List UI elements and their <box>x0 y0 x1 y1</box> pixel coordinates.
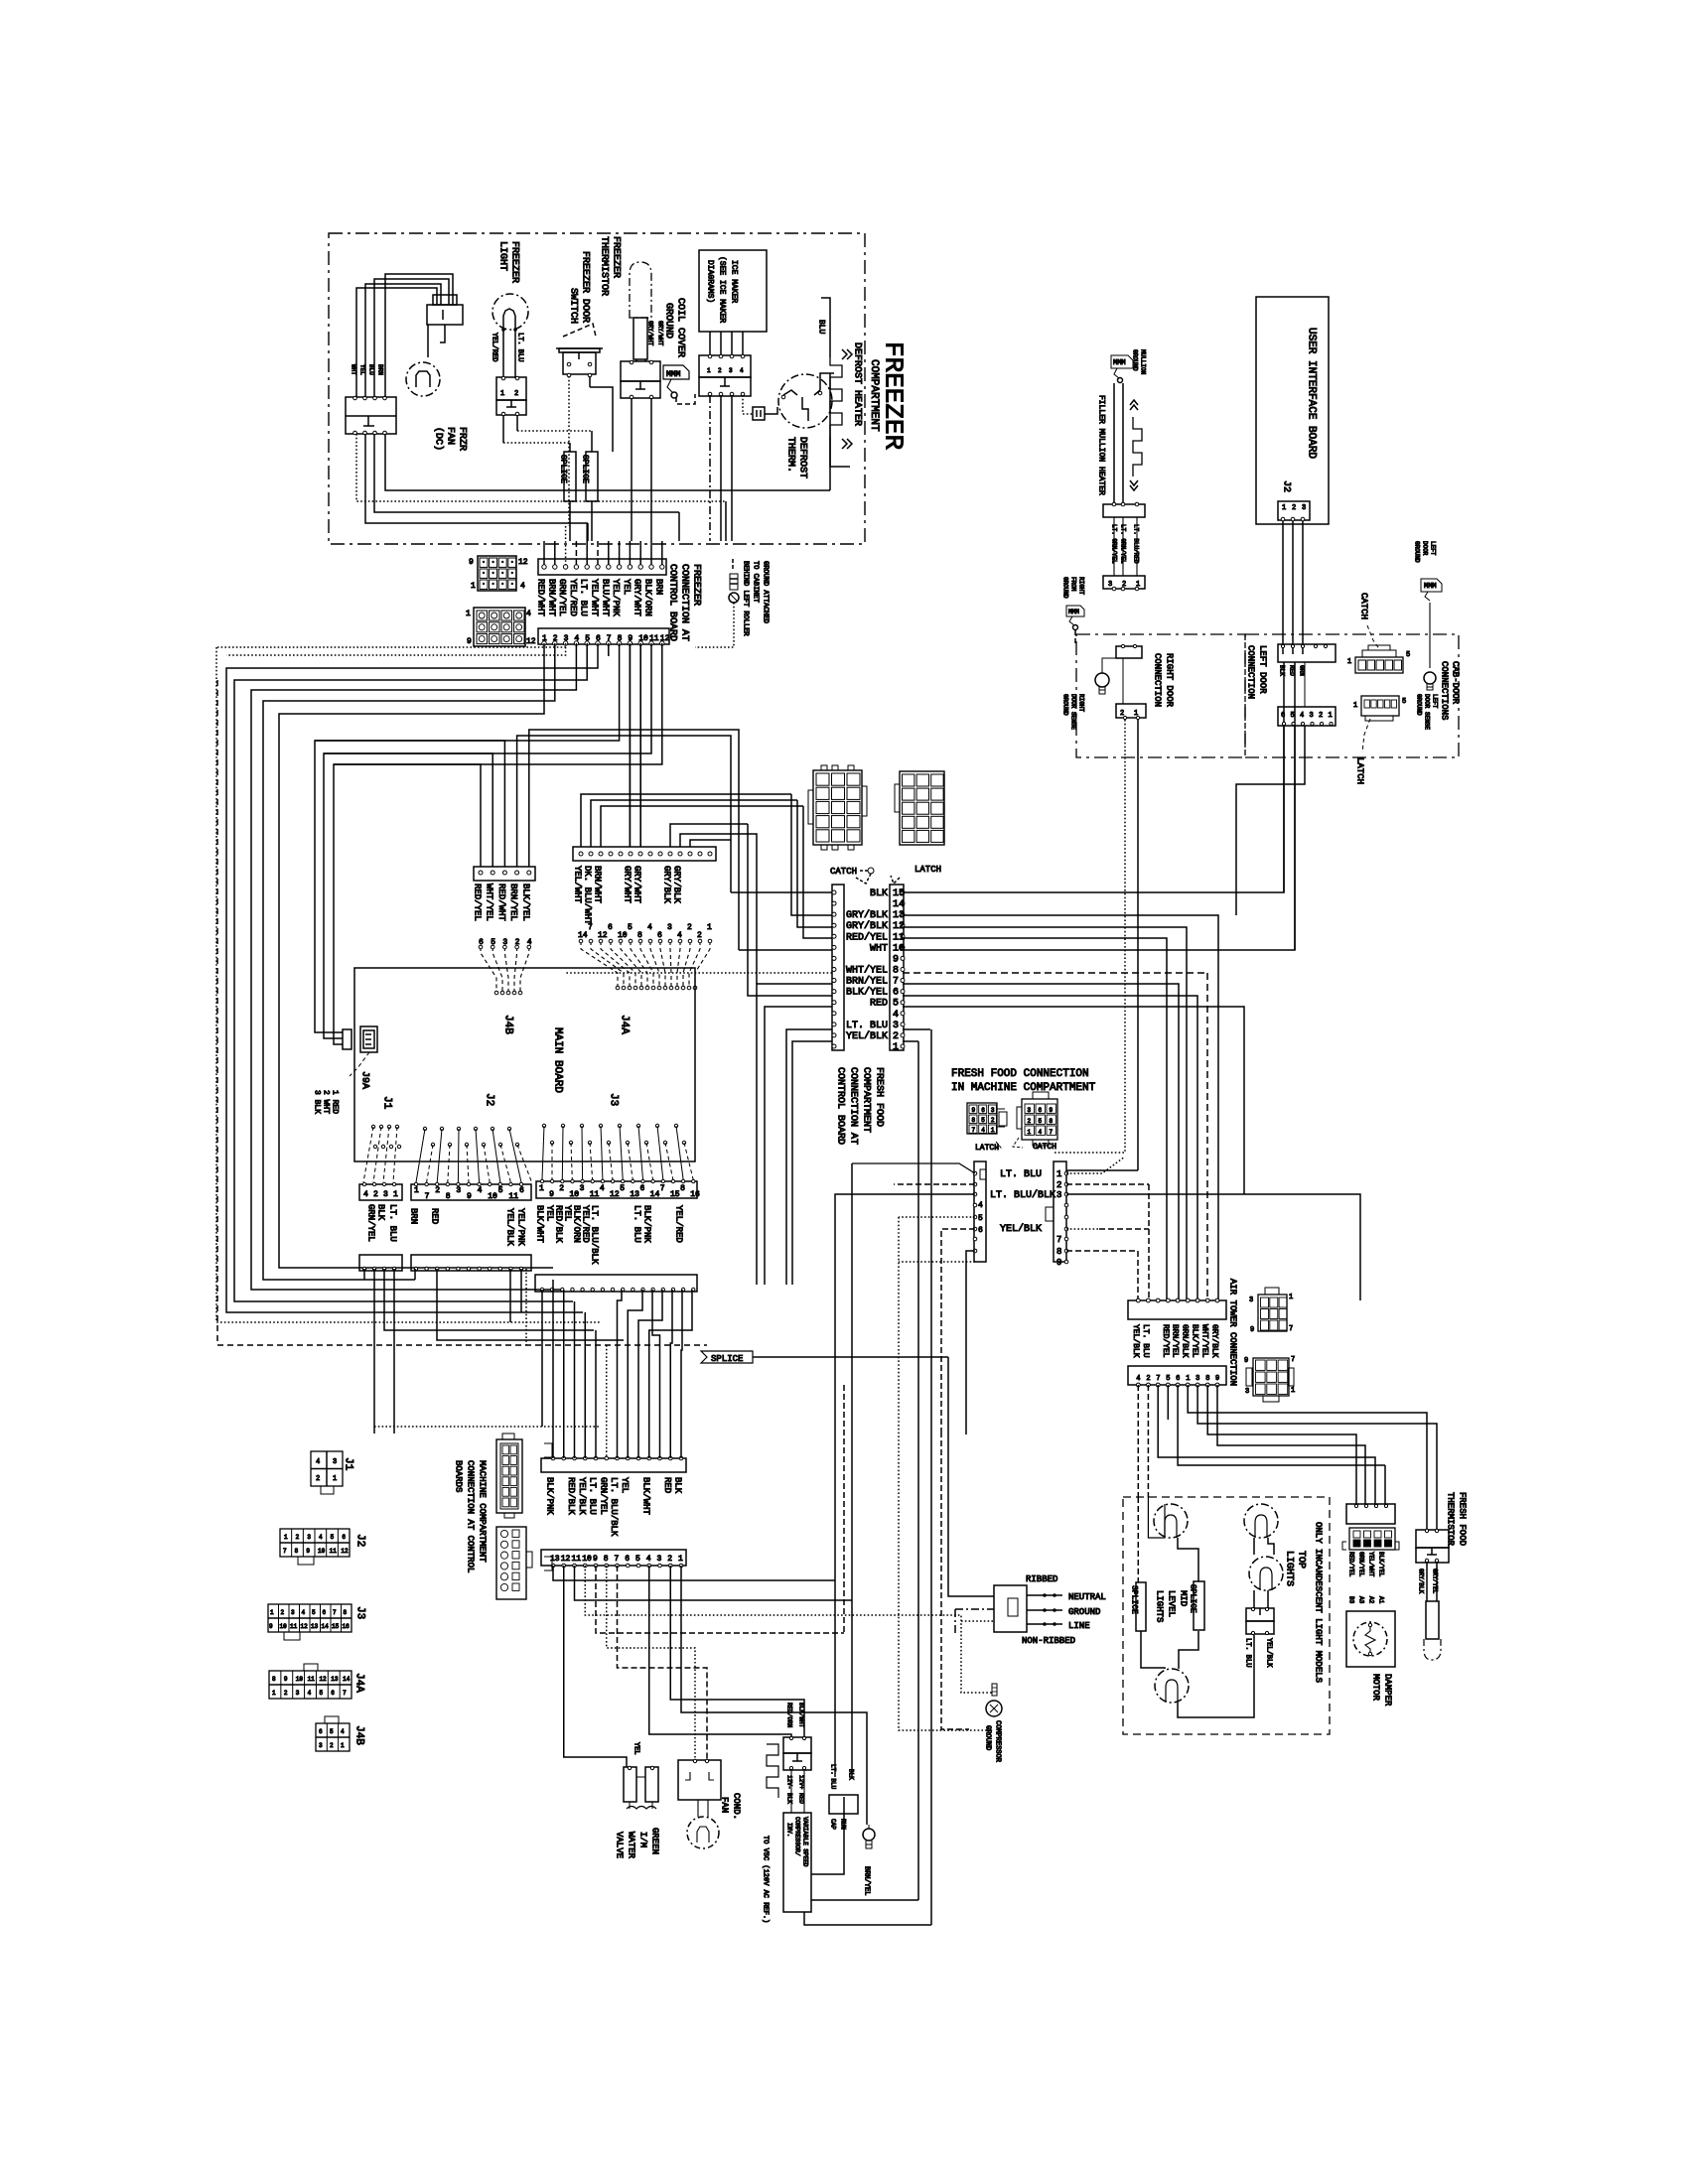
svg-text:TO CABINET: TO CABINET <box>752 561 760 603</box>
svg-text:1 RED: 1 RED <box>331 1090 340 1114</box>
outer dotted wire loop <box>216 646 566 648</box>
svg-text:15: 15 <box>893 888 905 899</box>
svg-text:BRN/WHT: BRN/WHT <box>546 579 556 616</box>
ff right strip outgoing wires <box>903 662 1284 892</box>
svg-text:9: 9 <box>469 558 474 567</box>
svg-text:RED/YEL: RED/YEL <box>1161 1324 1170 1358</box>
svg-text:3: 3 <box>319 1742 323 1749</box>
defrost heater element <box>821 298 830 320</box>
coil cover ground lug <box>663 365 689 379</box>
svg-text:4: 4 <box>1136 1375 1140 1383</box>
top light lamp 2 <box>1249 1557 1283 1590</box>
svg-text:3: 3 <box>1310 712 1314 720</box>
damper motor box <box>1346 1611 1395 1667</box>
svg-text:MOTOR: MOTOR <box>1371 1674 1381 1702</box>
J9A connector <box>360 1026 377 1052</box>
bundle wire 7 dotted <box>608 643 610 656</box>
svg-text:USER INTERFACE BOARD: USER INTERFACE BOARD <box>1306 328 1318 459</box>
svg-text:10: 10 <box>318 1548 326 1555</box>
svg-text:DEFROST HEATER: DEFROST HEATER <box>852 342 863 426</box>
svg-text:1: 1 <box>500 390 504 398</box>
fresh food left strip <box>832 885 844 1050</box>
svg-text:2: 2 <box>1319 712 1323 720</box>
svg-text:VARIABLE SPEED: VARIABLE SPEED <box>802 1817 809 1867</box>
svg-text:DAMPER: DAMPER <box>1383 1674 1393 1706</box>
svg-text:RED/YEL: RED/YEL <box>473 884 483 921</box>
svg-text:1: 1 <box>991 1127 995 1134</box>
svg-text:GRY/BLK: GRY/BLK <box>662 866 672 903</box>
svg-text:LIGHTS: LIGHTS <box>1155 1590 1165 1622</box>
svg-text:YEL/RED: YEL/RED <box>568 579 578 616</box>
svg-text:J4A: J4A <box>619 1015 631 1034</box>
svg-text:RED/YEL: RED/YEL <box>846 931 888 943</box>
svg-text:BRN: BRN <box>653 579 663 595</box>
svg-text:1: 1 <box>414 1186 419 1195</box>
svg-text:RED: RED <box>662 1477 672 1493</box>
svg-text:GRN/BLK: GRN/BLK <box>1181 1324 1190 1358</box>
svg-text:3: 3 <box>1302 504 1306 512</box>
svg-text:AIR TOWER CONNECTION: AIR TOWER CONNECTION <box>1228 1279 1238 1386</box>
cond fan box <box>678 1760 721 1800</box>
freezer compartment dash-dot enclosure <box>329 233 865 544</box>
right door plug <box>1103 576 1145 589</box>
J3 lower header <box>535 1275 697 1292</box>
svg-text:GROUND: GROUND <box>663 303 674 339</box>
svg-text:5: 5 <box>981 1117 985 1124</box>
filler mullion ground lug <box>1111 355 1133 368</box>
long mid verticals <box>917 1041 919 1900</box>
dashed wire loop <box>217 680 707 1345</box>
svg-text:LEFT DOOR: LEFT DOOR <box>1258 645 1268 694</box>
svg-text:5: 5 <box>1039 1118 1043 1125</box>
svg-text:1: 1 <box>1186 1375 1190 1383</box>
svg-text:RED/BLK: RED/BLK <box>554 1205 564 1243</box>
svg-text:1: 1 <box>707 367 711 374</box>
svg-text:LIGHTS: LIGHTS <box>1284 1551 1295 1586</box>
svg-text:YEL: YEL <box>563 1205 573 1221</box>
svg-text:CONNECTIONS: CONNECTIONS <box>1440 661 1450 720</box>
svg-text:CONNECTION: CONNECTION <box>1246 645 1256 699</box>
svg-text:WHT: WHT <box>870 943 888 954</box>
top light lamp 1 <box>1244 1504 1278 1538</box>
compressor heater meander <box>767 1744 778 1798</box>
svg-text:9: 9 <box>1050 1107 1054 1114</box>
svg-text:BLK/WHT: BLK/WHT <box>535 1205 545 1243</box>
vsc outgoing <box>811 1797 844 1874</box>
svg-text:SPLICE: SPLICE <box>1189 1584 1197 1613</box>
svg-text:BLU/WHT: BLU/WHT <box>600 579 610 616</box>
left door ground wire <box>1429 603 1431 668</box>
svg-text:2 WHT: 2 WHT <box>322 1090 331 1114</box>
J4B fanout <box>481 947 496 993</box>
svg-text:8: 8 <box>272 1676 276 1683</box>
svg-text:DOOR SENSE: DOOR SENSE <box>1070 694 1077 730</box>
svg-text:LT. BLU: LT. BLU <box>579 579 589 616</box>
svg-text:LEFT: LEFT <box>1432 694 1439 709</box>
svg-text:J1: J1 <box>343 1457 354 1471</box>
freezer connection upper strip <box>538 559 666 575</box>
svg-text:J4B: J4B <box>502 1015 514 1034</box>
dashed mid vertical <box>843 1385 845 1633</box>
fresh food right strip <box>890 885 904 1050</box>
svg-text:RED: RED <box>870 999 888 1010</box>
svg-text:1: 1 <box>893 1042 899 1053</box>
svg-text:7: 7 <box>1056 1235 1061 1245</box>
J4A fanout <box>581 941 618 988</box>
svg-text:2: 2 <box>514 390 518 398</box>
J2 lower header <box>411 1255 531 1271</box>
svg-text:BRN/WHT: BRN/WHT <box>593 866 603 903</box>
J1 upper header <box>359 1184 402 1200</box>
svg-text:DEFROST: DEFROST <box>797 437 808 478</box>
svg-text:CONTROL BOARD: CONTROL BOARD <box>835 1067 846 1145</box>
svg-text:9: 9 <box>467 637 472 646</box>
svg-text:RED/YEL: RED/YEL <box>1348 1552 1355 1577</box>
svg-text:9: 9 <box>972 1107 976 1114</box>
svg-text:10: 10 <box>280 1623 288 1630</box>
J2 lower wires <box>414 1269 416 1280</box>
svg-text:GRN/YEL: GRN/YEL <box>557 579 567 616</box>
svg-text:4: 4 <box>478 1186 483 1195</box>
svg-text:MMM: MMM <box>1424 583 1437 591</box>
svg-text:BOARDS: BOARDS <box>454 1460 464 1492</box>
svg-text:BLK: BLK <box>376 1204 386 1221</box>
svg-text:1: 1 <box>272 1690 276 1697</box>
svg-text:GROUND ATTACHED: GROUND ATTACHED <box>762 561 770 623</box>
freezer fan connector <box>346 397 396 434</box>
svg-text:8: 8 <box>893 965 899 976</box>
svg-text:LT. BLU: LT. BLU <box>830 1764 837 1790</box>
svg-text:6: 6 <box>323 1609 327 1616</box>
svg-text:2: 2 <box>281 1609 285 1616</box>
svg-text:15: 15 <box>670 1190 680 1199</box>
svg-text:3: 3 <box>580 1184 585 1193</box>
freezer light leads <box>502 328 504 378</box>
svg-text:GRN/YEL: GRN/YEL <box>598 1477 608 1515</box>
svg-text:J4A: J4A <box>353 1673 365 1693</box>
svg-text:J3: J3 <box>354 1606 366 1619</box>
svg-text:COMPRESSOR: COMPRESSOR <box>994 1720 1002 1763</box>
svg-text:MULLION: MULLION <box>1140 349 1147 375</box>
svg-text:4: 4 <box>363 1190 368 1199</box>
filler mullion heater wires <box>1113 383 1115 504</box>
svg-text:MAIN BOARD: MAIN BOARD <box>552 1027 564 1093</box>
svg-text:RED: RED <box>1289 665 1296 676</box>
svg-text:12: 12 <box>301 1623 309 1630</box>
svg-text:COIL COVER: COIL COVER <box>675 298 686 357</box>
bundle wire 3 <box>226 643 566 655</box>
right door ground lug <box>1066 606 1084 616</box>
svg-text:5: 5 <box>1166 1375 1170 1383</box>
power dash-dot feed <box>955 1608 994 1610</box>
12-pin connector face A <box>478 556 516 591</box>
ground wire <box>695 603 734 647</box>
svg-text:GRY/WHT: GRY/WHT <box>657 321 664 346</box>
mid light lamp 2 <box>1155 1669 1189 1703</box>
J1 lower wires <box>363 1269 365 1280</box>
J1 board pins <box>371 1125 374 1128</box>
svg-text:11: 11 <box>572 1555 582 1564</box>
right door wires down <box>1054 720 1125 1153</box>
svg-text:8: 8 <box>1205 1375 1209 1383</box>
svg-text:LT. BLU/BLK: LT. BLU/BLK <box>990 1189 1055 1201</box>
svg-text:SPLICE: SPLICE <box>559 455 568 483</box>
svg-text:LT. BLU: LT. BLU <box>1000 1169 1042 1180</box>
right door inner connector 2 <box>1116 704 1146 718</box>
svg-text:8: 8 <box>972 1117 976 1124</box>
freezer door switch symbol <box>556 347 603 349</box>
svg-text:YEL/WHT: YEL/WHT <box>590 579 600 616</box>
svg-text:8: 8 <box>344 1609 348 1616</box>
dotted compressor ground run <box>899 1217 993 1730</box>
svg-text:7: 7 <box>972 1127 976 1134</box>
svg-text:WHT/YEL: WHT/YEL <box>485 884 494 921</box>
svg-text:4: 4 <box>647 923 652 932</box>
svg-text:3: 3 <box>657 1555 662 1564</box>
svg-text:LT. BLU/RED: LT. BLU/RED <box>1133 524 1140 564</box>
J4A face <box>269 1671 352 1699</box>
svg-text:8: 8 <box>1050 1118 1054 1125</box>
svg-text:BRN/YEL: BRN/YEL <box>1171 1324 1180 1358</box>
right door inner connector 1 <box>1116 646 1142 658</box>
svg-text:8: 8 <box>637 931 642 940</box>
svg-text:GRY/BLK: GRY/BLK <box>1418 1569 1425 1594</box>
J3 face <box>268 1604 352 1632</box>
svg-text:3: 3 <box>991 1107 995 1114</box>
svg-text:YEL: YEL <box>545 1205 555 1221</box>
svg-text:4: 4 <box>319 1534 323 1541</box>
svg-text:2: 2 <box>991 1117 995 1124</box>
svg-text:YEL/PNK: YEL/PNK <box>611 579 621 616</box>
left door wires down <box>1283 726 1285 892</box>
svg-text:14: 14 <box>322 1623 330 1630</box>
svg-text:RIBBED: RIBBED <box>1026 1574 1057 1584</box>
bracket symbol 2 <box>544 1557 552 1570</box>
svg-text:GRN/YEL: GRN/YEL <box>366 1204 376 1242</box>
svg-text:5: 5 <box>312 1609 316 1616</box>
J3 upper header <box>536 1181 697 1198</box>
svg-text:7: 7 <box>333 1609 337 1616</box>
J3 lower short wires <box>541 1290 543 1427</box>
svg-text:J3: J3 <box>608 1093 620 1106</box>
machine compartment lower strip <box>541 1550 686 1566</box>
svg-text:13: 13 <box>331 1676 339 1683</box>
svg-text:GRY/WHT: GRY/WHT <box>623 866 633 903</box>
svg-text:9: 9 <box>1056 1258 1061 1268</box>
ff thermistor capsule <box>1426 1563 1428 1601</box>
svg-text:GRY/BLK: GRY/BLK <box>846 920 888 932</box>
svg-text:3: 3 <box>1056 1190 1061 1200</box>
damper chip connector <box>1349 1528 1395 1550</box>
svg-text:LT. BLU/BLK: LT. BLU/BLK <box>609 1477 619 1537</box>
svg-text:14: 14 <box>650 1190 660 1199</box>
svg-text:GRY/BLK: GRY/BLK <box>1210 1324 1219 1358</box>
svg-text:1: 1 <box>466 610 471 618</box>
svg-text:CONNECTION AT CONTROL: CONNECTION AT CONTROL <box>466 1460 476 1572</box>
J3 board pins <box>542 1124 545 1127</box>
svg-text:BLK/WHT: BLK/WHT <box>640 1477 650 1515</box>
bundle wire 1 <box>279 643 553 1268</box>
svg-text:BRN: BRN <box>377 364 384 375</box>
svg-text:9: 9 <box>306 1548 310 1555</box>
svg-text:6: 6 <box>893 988 899 999</box>
freezer fan motor circle <box>406 362 440 396</box>
machine 9-pin grid B <box>1022 1099 1057 1140</box>
svg-text:BLK/YEL: BLK/YEL <box>1378 1552 1385 1577</box>
svg-text:6: 6 <box>1281 712 1285 720</box>
freezer light connector <box>496 377 526 400</box>
svg-text:1: 1 <box>707 923 712 932</box>
ff left strip incoming wires <box>791 794 832 915</box>
right door connection box <box>1076 634 1245 757</box>
svg-text:2: 2 <box>316 1475 320 1483</box>
wires into J4A <box>629 643 631 847</box>
15-pin latch connector grid <box>900 771 944 845</box>
svg-text:A1: A1 <box>1378 1596 1385 1604</box>
heater wire down <box>842 466 850 468</box>
svg-text:12: 12 <box>561 1555 571 1564</box>
svg-text:RED/BLK: RED/BLK <box>566 1477 576 1515</box>
svg-text:8: 8 <box>446 1192 451 1201</box>
svg-text:LT. BLU: LT. BLU <box>846 1021 888 1031</box>
svg-text:12: 12 <box>610 1190 620 1199</box>
svg-text:COND.: COND. <box>732 1793 742 1820</box>
door catch connector <box>1355 657 1403 673</box>
svg-text:3: 3 <box>1028 1107 1032 1114</box>
svg-text:LATCH: LATCH <box>914 865 941 875</box>
J4B header <box>474 867 535 881</box>
svg-text:BRN/YEL: BRN/YEL <box>863 1866 871 1895</box>
bundle wire 4 <box>251 643 576 1290</box>
svg-text:THERMISTOR: THERMISTOR <box>1446 1492 1456 1547</box>
svg-text:RIGHT DOOR: RIGHT DOOR <box>1165 653 1175 708</box>
svg-text:11: 11 <box>508 1192 518 1201</box>
svg-text:4: 4 <box>341 1728 345 1735</box>
svg-text:1: 1 <box>284 1534 288 1541</box>
svg-text:BLK/YEL: BLK/YEL <box>520 884 530 921</box>
svg-text:BLK/WHT: BLK/WHT <box>798 1703 805 1728</box>
svg-text:LINE: LINE <box>1068 1621 1090 1631</box>
top lights connector <box>1246 1608 1274 1621</box>
splice flag <box>701 1351 753 1363</box>
svg-text:2: 2 <box>1028 1118 1032 1125</box>
svg-text:5: 5 <box>620 1184 625 1193</box>
heater arrows <box>842 349 847 359</box>
svg-text:3: 3 <box>667 923 672 932</box>
svg-text:1: 1 <box>1056 1169 1061 1179</box>
machine strip left wires <box>852 1163 975 1173</box>
svg-text:1: 1 <box>1289 1294 1293 1301</box>
svg-text:7: 7 <box>1050 1129 1054 1136</box>
svg-text:14: 14 <box>893 899 905 910</box>
svg-text:7: 7 <box>283 1548 287 1555</box>
fan bundle wires <box>356 288 437 397</box>
svg-text:GROUND: GROUND <box>1068 1607 1100 1617</box>
air tower lower wires <box>1137 1385 1139 1497</box>
svg-text:BLK: BLK <box>673 1477 683 1494</box>
svg-text:2: 2 <box>284 1690 288 1697</box>
svg-text:5: 5 <box>1291 712 1295 720</box>
svg-text:GROUND: GROUND <box>1414 541 1421 563</box>
svg-text:GRY/BLK: GRY/BLK <box>672 866 682 903</box>
svg-text:WHT/YEL: WHT/YEL <box>1200 1324 1209 1358</box>
svg-text:10: 10 <box>893 943 905 954</box>
wires into J4B <box>334 764 481 867</box>
fresh food thermistor connector <box>1416 1530 1449 1548</box>
svg-text:4: 4 <box>740 367 744 374</box>
svg-text:RIGHT: RIGHT <box>1078 577 1085 595</box>
svg-text:1: 1 <box>1028 1129 1032 1136</box>
svg-text:VALVE: VALVE <box>615 1832 625 1858</box>
svg-text:6: 6 <box>608 923 613 932</box>
inner bundle wires to J9A <box>315 643 620 1032</box>
svg-text:3: 3 <box>1108 581 1112 589</box>
svg-text:3 BLK: 3 BLK <box>313 1090 322 1114</box>
bundle wire 2 <box>263 643 555 1280</box>
svg-text:RED/ORN: RED/ORN <box>786 1703 793 1728</box>
svg-text:2: 2 <box>435 1186 440 1195</box>
cabinet ground lug <box>732 559 734 571</box>
svg-text:J2: J2 <box>354 1534 366 1547</box>
svg-text:DOOR SENSE: DOOR SENSE <box>1424 694 1431 730</box>
svg-text:ONLY INCANDESCENT LIGHT MODELS: ONLY INCANDESCENT LIGHT MODELS <box>1314 1522 1324 1683</box>
bundle wire 5 <box>234 643 587 1301</box>
svg-text:GROUND: GROUND <box>1132 349 1139 371</box>
svg-text:4: 4 <box>302 1609 306 1616</box>
svg-text:DIAGRAMS): DIAGRAMS) <box>706 260 715 303</box>
svg-text:4: 4 <box>981 1127 985 1134</box>
freezer connection lower strip <box>538 628 669 644</box>
cond fan motor <box>687 1817 719 1848</box>
UI J2 wires down <box>1282 521 1284 654</box>
svg-text:DK. BLU/WHT: DK. BLU/WHT <box>583 866 593 925</box>
svg-text:2: 2 <box>687 923 692 932</box>
svg-text:YEL/WHT: YEL/WHT <box>1368 1552 1375 1577</box>
svg-text:6: 6 <box>519 1186 524 1195</box>
splice output wire <box>753 1356 948 1358</box>
svg-text:9: 9 <box>549 1190 554 1199</box>
svg-text:FREEZER: FREEZER <box>509 241 520 283</box>
bundle wire 6 <box>226 643 598 1312</box>
svg-text:J9A: J9A <box>359 1071 370 1089</box>
svg-text:MACHINE COMPARTMENT: MACHINE COMPARTMENT <box>478 1460 488 1563</box>
door switch wires <box>568 376 570 443</box>
svg-text:J2: J2 <box>1281 480 1292 492</box>
bracket symbol 1 <box>544 1443 552 1457</box>
svg-text:CONNECTION: CONNECTION <box>1153 653 1163 707</box>
svg-text:BLK/YEL: BLK/YEL <box>1191 1324 1199 1358</box>
machine compartment connector stack 2 <box>496 1527 526 1599</box>
left door ground lug <box>1421 579 1442 592</box>
svg-text:7: 7 <box>660 1184 665 1193</box>
J4B face <box>316 1723 350 1751</box>
svg-text:BLK/ORN: BLK/ORN <box>643 579 653 616</box>
freezer light wires down <box>502 415 504 443</box>
air tower 9-pin grid upper <box>1258 1295 1287 1331</box>
air tower 9-pin grid lower <box>1253 1358 1289 1396</box>
svg-text:1: 1 <box>1329 712 1333 720</box>
svg-text:10: 10 <box>569 1190 579 1199</box>
svg-text:COMPARTMENT: COMPARTMENT <box>868 359 880 432</box>
svg-text:MID: MID <box>1179 1590 1189 1606</box>
right door sensor bulb <box>1095 673 1109 687</box>
svg-text:6: 6 <box>981 1107 985 1114</box>
15-pin catch connector grid <box>813 770 862 845</box>
svg-text:2: 2 <box>697 931 702 940</box>
machine right strip <box>1054 1161 1066 1262</box>
svg-text:DOOR: DOOR <box>1422 541 1429 556</box>
svg-text:5: 5 <box>893 999 899 1010</box>
